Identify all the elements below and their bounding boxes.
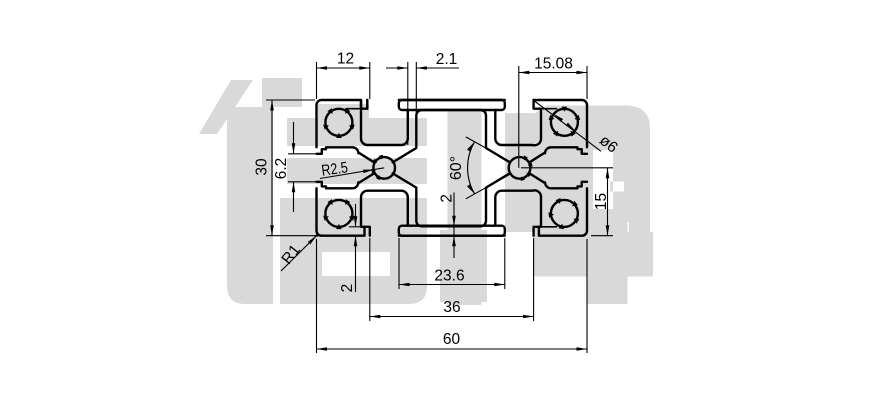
central tube inner boundary with V notches <box>393 110 510 226</box>
dim 60 ext+line <box>317 239 588 353</box>
svg-text:2.1: 2.1 <box>436 51 458 68</box>
dim 36 ext+line <box>370 238 534 321</box>
bottom cap <box>399 226 505 236</box>
top-left slot cavity <box>361 100 408 145</box>
dim 2 center line <box>453 193 455 259</box>
corner hole top-left <box>325 109 352 136</box>
corner hole notches <box>349 125 355 130</box>
top cap <box>399 100 505 110</box>
center hole right <box>509 157 531 179</box>
corner hole bottom-left <box>325 200 352 227</box>
svg-text:6.2: 6.2 <box>273 158 290 180</box>
R2.5 arrow <box>363 170 374 174</box>
dim 36 arrows <box>370 315 381 319</box>
dim 15.08 arrows <box>519 71 530 75</box>
dim 15 ext+line <box>521 168 613 236</box>
dim 12 arrows <box>317 66 328 70</box>
lip shoulder top-left slot <box>346 108 361 110</box>
left char narrow bar <box>318 104 369 120</box>
dim 2.1 arrows <box>397 66 408 70</box>
watermark <box>199 78 653 305</box>
svg-text:15.08: 15.08 <box>534 56 573 73</box>
svg-text:2: 2 <box>438 194 455 203</box>
dim 23.6 ext+line <box>399 238 505 289</box>
dim 2 left arrows <box>354 216 358 227</box>
R1 leader <box>281 236 317 271</box>
right char bottom-left box with window <box>440 230 487 302</box>
svg-text:30: 30 <box>254 158 271 176</box>
svg-text:60: 60 <box>443 331 461 348</box>
dim 30 arrows <box>270 100 274 111</box>
R2.5 leader <box>320 168 384 179</box>
corner hole bottom-right <box>551 200 578 227</box>
dim 23.6 arrows <box>399 283 410 287</box>
dim 12 ext+line <box>317 62 370 99</box>
circle notches <box>323 107 580 230</box>
60deg rays <box>466 137 510 199</box>
dim 2 center arrows <box>452 216 456 227</box>
svg-text:36: 36 <box>443 299 460 316</box>
svg-text:60°: 60° <box>448 156 465 180</box>
dim 6.2 arrows <box>292 143 296 154</box>
left char vertical bar <box>227 107 273 304</box>
left char bar3 <box>287 158 427 184</box>
right char mid block <box>505 150 593 232</box>
left char top stub <box>262 78 302 107</box>
dim 15.08 ext+line <box>519 66 587 168</box>
outer boundary <box>317 100 588 236</box>
right char right column with notch and step <box>610 148 650 241</box>
lip shoulder top-right slot <box>541 108 557 110</box>
dimensions <box>266 62 613 353</box>
dim 2.1 ext+line <box>386 62 459 145</box>
bottom-left slot cavity <box>361 191 408 227</box>
circles <box>325 109 578 227</box>
right char vertical bar <box>448 111 482 305</box>
arrowheads <box>270 66 609 351</box>
R1 arrow <box>308 236 317 245</box>
60deg arc <box>468 142 475 194</box>
center hole notches <box>376 175 380 180</box>
dimension texts <box>254 51 621 349</box>
dim 30 ext+line <box>266 100 325 236</box>
dim 15 arrows <box>606 168 610 179</box>
dia6 arrows <box>554 114 563 122</box>
right char cross vertical <box>587 209 628 304</box>
profile outline <box>317 100 588 236</box>
right char top-right block <box>505 106 650 151</box>
corner hole top-right <box>551 109 578 136</box>
left char bar2 <box>287 118 427 146</box>
dim 60 arrows <box>317 347 328 351</box>
bottom-right slot cavity <box>495 190 541 226</box>
lip shoulder bottom-right slot <box>541 226 557 228</box>
svg-text:15: 15 <box>593 193 610 210</box>
svg-text:12: 12 <box>337 51 354 68</box>
svg-text:23.6: 23.6 <box>434 268 464 285</box>
svg-text:2: 2 <box>339 284 356 293</box>
dim 6.2 ext+line <box>288 122 318 212</box>
center hole left <box>373 157 395 179</box>
left char bottom box with window <box>280 198 427 304</box>
right char cross horizontal <box>533 232 653 277</box>
left char diagonal stroke <box>199 80 253 134</box>
60deg arc arrows <box>467 142 475 152</box>
dim 2 left ext+line <box>349 204 362 292</box>
dia6 leader <box>534 101 601 152</box>
top-right slot cavity <box>495 100 541 145</box>
